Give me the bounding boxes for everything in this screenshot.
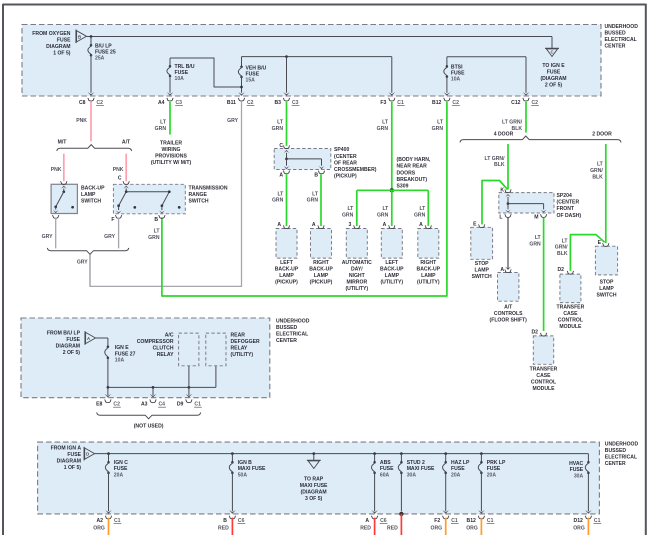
svg-text:E: E (473, 222, 477, 228)
svg-text:FROM IGN A: FROM IGN A (51, 445, 82, 451)
svg-text:GRY: GRY (42, 234, 53, 240)
splice SP204 internal (505, 194, 511, 197)
svg-text:LEFT: LEFT (280, 260, 294, 266)
svg-text:SWITCH: SWITCH (189, 199, 209, 205)
svg-text:30A: 30A (407, 473, 417, 479)
component transfer case control module (lower) (533, 336, 553, 364)
svg-text:HAZ LP: HAZ LP (451, 460, 470, 466)
svg-text:SWITCH: SWITCH (472, 274, 492, 280)
svg-text:UNDERHOOD: UNDERHOOD (605, 442, 639, 448)
svg-text:FUSE: FUSE (67, 452, 81, 458)
svg-text:25A: 25A (95, 56, 105, 62)
switch arms transmission range switch (123, 186, 129, 189)
svg-text:RANGE: RANGE (189, 192, 208, 198)
svg-text:(NOT USED): (NOT USED) (134, 423, 164, 429)
svg-text:(PICKUP): (PICKUP) (275, 280, 298, 286)
svg-text:(UTILITY): (UTILITY) (345, 286, 368, 292)
pin F2 / connector C1 (442, 510, 449, 514)
fuse IGN B 50A (231, 454, 233, 463)
node junctions bottom bus (107, 452, 110, 455)
svg-text:LT: LT (382, 119, 389, 125)
svg-text:10A: 10A (175, 76, 185, 82)
svg-text:(PICKUP): (PICKUP) (310, 280, 333, 286)
underhood bussed electrical center box (middle) (21, 318, 270, 398)
svg-text:GRN: GRN (377, 126, 389, 132)
svg-text:(BODY HARN,: (BODY HARN, (397, 157, 431, 163)
svg-text:B: B (223, 518, 227, 524)
svg-text:LT: LT (437, 119, 444, 125)
node junction bus2 / B3 drop (285, 55, 288, 58)
svg-text:2 OF 5): 2 OF 5) (63, 350, 81, 356)
svg-text:ELECTRICAL: ELECTRICAL (605, 37, 637, 43)
svg-text:M: M (534, 214, 538, 220)
pin A2 / connector C1 (105, 510, 112, 514)
wire LT GRN/BLK 2door branch to stop lamp switch (605, 144, 607, 243)
svg-text:D: D (86, 452, 89, 457)
fuse IGN C 20A (108, 454, 110, 463)
fuse ABS 60A (374, 454, 376, 463)
svg-text:LAMP: LAMP (314, 273, 329, 279)
svg-text:FUSE: FUSE (487, 466, 501, 472)
wire LT GRN from B12 BTSI to transmission range switch (162, 102, 447, 296)
svg-text:A: A (419, 222, 423, 228)
svg-text:LT: LT (277, 119, 284, 125)
svg-text:FUSE: FUSE (114, 466, 128, 472)
flow arrow D from IGN A fuse (83, 447, 85, 461)
wire ORG from PRK LP (480, 518, 482, 535)
svg-text:C1: C1 (114, 518, 121, 524)
svg-text:B: B (78, 34, 81, 39)
svg-text:CENTER: CENTER (605, 461, 626, 467)
svg-text:2 OF 5): 2 OF 5) (545, 83, 563, 89)
svg-text:SWITCH: SWITCH (81, 199, 101, 205)
svg-text:MAXI FUSE: MAXI FUSE (407, 466, 435, 472)
component right back-up lamp (pickup) (311, 229, 332, 259)
svg-text:B11: B11 (227, 100, 236, 106)
svg-text:RELAY: RELAY (231, 346, 248, 352)
component left back-up lamp (utility) (381, 229, 402, 259)
svg-text:D9: D9 (177, 402, 184, 408)
svg-text:PROVISIONS: PROVISIONS (155, 154, 187, 160)
svg-text:C3: C3 (292, 100, 299, 106)
svg-text:60A: 60A (380, 473, 390, 479)
fuse TRL B/U FUSE 10A (169, 58, 171, 66)
svg-text:LT: LT (160, 119, 167, 125)
svg-text:ELECTRICAL: ELECTRICAL (605, 455, 637, 461)
svg-text:BACK-UP: BACK-UP (309, 267, 333, 273)
svg-text:RIGHT: RIGHT (313, 260, 330, 266)
svg-text:C2: C2 (97, 100, 104, 106)
svg-text:A: A (312, 222, 316, 228)
wire bottom bus (95, 453, 589, 455)
svg-text:GRN: GRN (307, 198, 319, 204)
wire GRY from back-up lamp switch (55, 218, 57, 249)
svg-text:BLK: BLK (592, 175, 603, 181)
svg-text:FUSE: FUSE (570, 467, 584, 473)
svg-text:FUSE: FUSE (380, 466, 394, 472)
svg-text:3 OF 5): 3 OF 5) (305, 496, 323, 502)
pin F transmission range switch (115, 215, 122, 218)
component stop lamp switch (2 door) (595, 246, 617, 275)
svg-text:SP400: SP400 (334, 147, 349, 153)
svg-text:TRANSFER: TRANSFER (530, 367, 558, 373)
svg-text:A/C: A/C (165, 333, 174, 339)
svg-text:ELECTRICAL: ELECTRICAL (276, 332, 308, 338)
svg-text:FUSE: FUSE (547, 70, 561, 76)
svg-text:CASE: CASE (563, 311, 578, 317)
wire LT GRN/BLK from C12 (525, 102, 527, 133)
svg-text:COMPRESSOR: COMPRESSOR (137, 339, 174, 345)
svg-text:A2: A2 (96, 518, 103, 524)
svg-text:GRN: GRN (529, 241, 541, 247)
svg-text:CROSSMEMBER): CROSSMEMBER) (334, 167, 377, 173)
svg-text:(CENTER: (CENTER (557, 200, 580, 206)
wire from SP204 L to A/T controls (507, 218, 509, 269)
pin B transmission range switch (159, 215, 166, 218)
svg-text:BLK: BLK (557, 251, 568, 257)
wire middle bus (108, 386, 216, 388)
wire LT GRN/BLK 4door branch to SP204 (507, 144, 509, 190)
svg-text:C4: C4 (159, 402, 166, 408)
svg-text:M/T: M/T (58, 140, 68, 146)
svg-text:RED: RED (218, 525, 229, 531)
wire RED from STUD 2 (400, 514, 402, 535)
wire BTSI feed (446, 57, 448, 66)
underhood bussed electrical center box (top) (22, 25, 601, 97)
flow arrow A from B/U LP fuse (84, 331, 86, 345)
wire PNK M/T branch (63, 154, 65, 182)
svg-text:DIAGRAM: DIAGRAM (57, 459, 81, 465)
fuse IGN E FUSE 27 10A (107, 346, 110, 349)
pin C SP400 (283, 146, 290, 149)
svg-text:BUSSED: BUSSED (605, 448, 627, 454)
component right back-up lamp (utility) (418, 229, 439, 259)
fuse STUD 2 30A (400, 454, 402, 463)
svg-text:MAXI FUSE: MAXI FUSE (238, 466, 266, 472)
svg-text:C6: C6 (380, 518, 387, 524)
switch arm back-up lamp switch (61, 186, 67, 189)
svg-text:SWITCH: SWITCH (596, 292, 616, 298)
svg-text:FROM B/U LP: FROM B/U LP (47, 330, 81, 336)
svg-text:RED: RED (360, 525, 371, 531)
svg-text:GRN: GRN (342, 212, 354, 218)
svg-text:CONTROL: CONTROL (531, 380, 556, 386)
svg-text:ORG: ORG (430, 525, 442, 531)
wire A3 drop (152, 387, 154, 395)
pin B12 / connector C1 (478, 510, 485, 514)
svg-text:A/T: A/T (122, 140, 131, 146)
svg-text:CONTROL: CONTROL (558, 317, 583, 323)
svg-text:GRN: GRN (377, 212, 389, 218)
svg-text:10A: 10A (115, 358, 125, 364)
svg-text:C: C (279, 143, 283, 149)
pin B12 / connector C2 (444, 92, 451, 96)
pin A3 / connector C4 (150, 394, 157, 398)
svg-text:F3: F3 (380, 100, 386, 106)
svg-text:BACK-UP: BACK-UP (380, 267, 404, 273)
wire LT GRN S309 branch bus (357, 189, 429, 191)
svg-text:GRN: GRN (432, 126, 444, 132)
node junction A3 (152, 386, 155, 389)
svg-text:C2: C2 (452, 100, 459, 106)
svg-text:1 OF 5): 1 OF 5) (53, 51, 71, 57)
svg-text:OF REAR: OF REAR (334, 160, 357, 166)
svg-text:LT: LT (382, 206, 389, 212)
svg-text:B3: B3 (274, 100, 281, 106)
split brace M/T A/T (57, 145, 132, 151)
svg-text:50A: 50A (238, 473, 248, 479)
svg-text:LAMP: LAMP (474, 267, 489, 273)
wire LT GRN/BLK tap to upper transfer case module (570, 235, 604, 271)
svg-text:(PICKUP): (PICKUP) (334, 174, 357, 180)
svg-text:D12: D12 (574, 518, 584, 524)
svg-text:A: A (365, 518, 369, 524)
svg-text:RELAY: RELAY (157, 352, 174, 358)
svg-text:C6: C6 (238, 518, 245, 524)
pin M SP204 (540, 214, 547, 217)
svg-text:B: B (154, 217, 158, 223)
svg-text:IGN E: IGN E (115, 345, 129, 351)
wire GRY from B11 to switches (90, 102, 242, 286)
svg-text:A/T: A/T (504, 304, 513, 310)
svg-text:BACK-UP: BACK-UP (81, 186, 105, 192)
component automatic day-night mirror (utility) (346, 229, 367, 259)
pin A / connector C6 (371, 510, 378, 514)
svg-text:TRAILER: TRAILER (160, 141, 182, 147)
pin E8 / connector C2 (105, 394, 112, 398)
wire PNK A/T branch (125, 154, 127, 182)
fuse B/U LP FUSE 25 25A (90, 37, 92, 46)
svg-text:A3: A3 (141, 402, 148, 408)
splice pack SP400 box (274, 149, 331, 170)
svg-text:(DIAGRAM: (DIAGRAM (540, 76, 566, 82)
svg-text:REAR: REAR (231, 333, 246, 339)
svg-text:DEFOGGER: DEFOGGER (231, 339, 260, 345)
wire LT GRN to auto day-night mirror (356, 190, 358, 226)
svg-text:C3: C3 (176, 100, 183, 106)
node junction E8 (107, 386, 110, 389)
svg-text:C: C (118, 176, 122, 182)
svg-text:BLK: BLK (494, 162, 505, 168)
svg-text:4 DOOR: 4 DOOR (494, 132, 514, 138)
svg-text:C1: C1 (397, 100, 404, 106)
wire A/C relay drop (188, 366, 190, 388)
split brace 4door 2door (460, 136, 621, 142)
svg-text:(UTILITY): (UTILITY) (231, 352, 254, 358)
wire GRY merged (89, 255, 91, 287)
wire ORG from HVAC (587, 518, 589, 535)
svg-text:UNDERHOOD: UNDERHOOD (605, 24, 639, 30)
svg-text:ORG: ORG (93, 525, 105, 531)
wire bus2 (242, 56, 392, 58)
svg-text:E: E (598, 240, 602, 246)
pin B SP400 (318, 171, 325, 174)
svg-text:LT: LT (347, 206, 354, 212)
wire GRY from pin F (118, 218, 120, 249)
pin C8 / connector C2 (88, 92, 95, 96)
svg-text:2 DOOR: 2 DOOR (592, 132, 612, 138)
merge brace not used (97, 412, 201, 418)
svg-text:PNK: PNK (113, 167, 124, 173)
wire LT GRN SP204 M to transfer case control module (543, 218, 545, 331)
svg-text:PNK: PNK (76, 118, 87, 124)
svg-text:C1: C1 (451, 518, 458, 524)
flow arrow C to IGN E fuse (545, 47, 559, 49)
underhood bussed electrical center box (bottom) (38, 442, 600, 514)
svg-text:CASE: CASE (536, 373, 551, 379)
svg-text:CENTER: CENTER (605, 44, 626, 50)
svg-text:DOORS: DOORS (397, 170, 416, 176)
svg-text:LT: LT (597, 162, 604, 168)
pin bottom back-up lamp switch (52, 215, 59, 218)
svg-text:LT: LT (312, 191, 319, 197)
svg-text:BREAKOUT): BREAKOUT) (397, 177, 428, 183)
svg-text:LT: LT (419, 206, 426, 212)
svg-text:LAMP: LAMP (81, 192, 96, 198)
svg-text:(DIAGRAM: (DIAGRAM (301, 490, 327, 496)
wire LT GRN SP400-A to left backup lamp pickup (286, 174, 288, 226)
svg-text:NIGHT: NIGHT (349, 273, 366, 279)
fuse HVAC FUSE 30A (587, 461, 590, 464)
svg-text:C2: C2 (247, 100, 254, 106)
wire RED from ABS (374, 518, 376, 535)
svg-text:(UTILITY): (UTILITY) (380, 280, 403, 286)
svg-text:(FLOOR SHIFT): (FLOOR SHIFT) (490, 317, 528, 323)
pin D12 / connector C1 (585, 510, 592, 514)
svg-text:RED: RED (387, 525, 398, 531)
svg-text:CLUTCH: CLUTCH (153, 346, 174, 352)
pin A4 / connector C3 (167, 92, 174, 96)
svg-text:LT GRN/: LT GRN/ (485, 156, 506, 162)
svg-text:10A: 10A (451, 77, 461, 83)
fuse PRK LP 20A (480, 454, 482, 463)
wire E8 drop (107, 387, 109, 395)
svg-text:F2: F2 (434, 518, 440, 524)
wire LT GRN from F3 to S309 (391, 102, 393, 190)
wire D9 drop (188, 387, 190, 395)
svg-text:GRN: GRN (414, 212, 426, 218)
svg-text:GRN: GRN (272, 126, 284, 132)
component A/T controls (floor shift) (498, 273, 519, 302)
wire LT GRN to right backup lamp utility (427, 190, 429, 226)
svg-text:GRN/: GRN/ (555, 245, 568, 251)
svg-text:TRANSFER: TRANSFER (557, 304, 585, 310)
svg-text:B12: B12 (467, 518, 477, 524)
stud connection STUD 2 output (399, 512, 403, 516)
svg-text:20A: 20A (487, 473, 497, 479)
svg-text:D2: D2 (557, 267, 564, 273)
component transfer case control module (upper) (560, 274, 581, 303)
wire IGN E feed (96, 337, 108, 339)
svg-text:IGN C: IGN C (114, 460, 128, 466)
splice SP400 internal (284, 150, 290, 153)
svg-text:C8: C8 (79, 100, 86, 106)
svg-text:STUD 2: STUD 2 (407, 460, 425, 466)
svg-text:OF DASH): OF DASH) (557, 213, 582, 219)
svg-text:DIAGRAM: DIAGRAM (46, 44, 70, 50)
svg-text:BACK-UP: BACK-UP (417, 267, 441, 273)
pin B11 / connector C2 (238, 92, 245, 96)
svg-text:IGN B: IGN B (238, 460, 252, 466)
svg-text:BACK-UP: BACK-UP (275, 267, 299, 273)
svg-text:20A: 20A (114, 473, 124, 479)
pin L SP204 (505, 214, 512, 217)
splice pack SP204 box (499, 193, 554, 213)
svg-text:FUSE: FUSE (66, 337, 80, 343)
pin B / connector C6 (229, 510, 236, 514)
svg-text:BUSSED: BUSSED (276, 325, 298, 331)
svg-text:GRY: GRY (227, 118, 238, 124)
svg-text:C1: C1 (487, 518, 494, 524)
node junction VEH fuse out / TRL feed (240, 86, 243, 89)
svg-text:LT: LT (154, 228, 161, 234)
svg-text:C1: C1 (194, 402, 201, 408)
svg-text:RIGHT: RIGHT (420, 260, 437, 266)
flow arrow B from oxygen fuse (75, 30, 77, 44)
svg-text:1 OF 5): 1 OF 5) (64, 465, 82, 471)
svg-text:LT: LT (535, 235, 542, 241)
svg-text:MODULE: MODULE (532, 386, 555, 392)
svg-text:A: A (279, 173, 283, 179)
svg-text:A: A (383, 222, 387, 228)
relay A/C compressor clutch relay (179, 333, 199, 366)
svg-text:MODULE: MODULE (559, 324, 582, 330)
svg-text:BUSSED: BUSSED (605, 31, 627, 37)
wire RED from IGN B (231, 518, 233, 535)
svg-text:S309: S309 (397, 184, 409, 190)
svg-text:LAMP: LAMP (599, 286, 614, 292)
svg-text:FUSE: FUSE (57, 38, 71, 44)
svg-text:GRN/: GRN/ (590, 168, 603, 174)
wire ORG from HAZ LP (445, 518, 447, 535)
svg-text:STOP: STOP (600, 279, 614, 285)
svg-text:SP204: SP204 (557, 193, 572, 199)
svg-text:GRY: GRY (104, 234, 115, 240)
component stop lamp switch (4 door) (471, 227, 493, 259)
svg-text:TO RAP: TO RAP (304, 476, 324, 482)
transmission range switch box (113, 184, 185, 214)
svg-text:C12: C12 (511, 100, 521, 106)
svg-text:FUSE: FUSE (451, 466, 465, 472)
svg-text:LT: LT (562, 238, 569, 244)
page border frame (3, 4, 647, 6)
svg-text:PRK LP: PRK LP (487, 460, 506, 466)
svg-text:LEFT: LEFT (385, 260, 399, 266)
svg-text:STOP: STOP (475, 261, 489, 267)
pin F3 / connector C1 (389, 92, 396, 96)
svg-text:LT: LT (277, 191, 284, 197)
pin K SP204 (505, 190, 512, 193)
svg-text:ORG: ORG (573, 525, 585, 531)
svg-text:DAY/: DAY/ (351, 267, 363, 273)
svg-text:30A: 30A (574, 473, 584, 479)
svg-text:E8: E8 (96, 402, 102, 408)
wire PNK from C8 (90, 102, 92, 141)
wire LT GRN SP400-B to right backup lamp pickup (320, 174, 322, 226)
svg-text:MAXI FUSE: MAXI FUSE (300, 483, 328, 489)
svg-text:FUSE 27: FUSE 27 (115, 351, 136, 357)
wire bus1 feed (87, 36, 553, 38)
svg-text:LAMP: LAMP (421, 273, 436, 279)
svg-text:CONTROLS: CONTROLS (494, 311, 523, 317)
svg-text:GRN: GRN (148, 235, 160, 241)
fuse HAZ LP 20A (445, 454, 447, 463)
svg-text:GRN: GRN (272, 198, 284, 204)
pin C transmission range switch (123, 181, 130, 184)
svg-text:3: 3 (348, 222, 351, 228)
svg-text:NEAR REAR: NEAR REAR (397, 164, 428, 170)
svg-text:A: A (277, 222, 281, 228)
